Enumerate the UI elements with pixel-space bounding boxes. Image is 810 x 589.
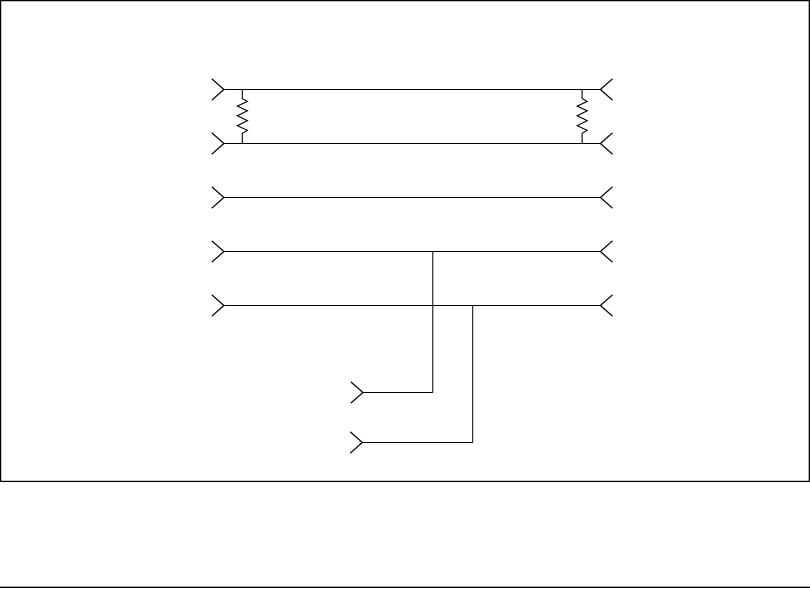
- resistor R1 (left termination, between wire 1 and wire 2): [237, 90, 247, 144]
- connector pin P1 (left, wire 1): [212, 79, 224, 100]
- wire (vertical tap from wire 5 down to wire 7): [472, 306, 474, 443]
- wire 7 (stub to vertical tap): [362, 442, 472, 444]
- wire 3: [224, 197, 601, 199]
- wire (vertical tap from wire 4 down to wire 6): [432, 252, 434, 393]
- wire 5: [224, 305, 601, 307]
- connector pin P4 (left, wire 4): [212, 241, 224, 262]
- wire 1: [224, 89, 601, 91]
- connector pin P3 (left, wire 3): [212, 187, 224, 208]
- wire 6 (stub to vertical tap): [363, 392, 433, 394]
- connector pin P5 (left, wire 5): [212, 295, 224, 316]
- connector pin P10 (right, wire 5): [600, 295, 612, 316]
- wire 2: [224, 143, 601, 145]
- wire 4: [224, 251, 601, 253]
- connector pin P6 (right, wire 1): [600, 79, 612, 100]
- connector pin P9 (right, wire 4): [600, 241, 612, 262]
- resistor R2 (right termination, between wire 1 and wire 2): [577, 90, 587, 144]
- connector pin P7 (right, wire 2): [600, 133, 612, 154]
- connector pin P8 (right, wire 3): [600, 187, 612, 208]
- connector pin P12 (left, wire 7): [350, 432, 362, 453]
- connector pin P2 (left, wire 2): [212, 133, 224, 154]
- connector pin P11 (left, wire 6): [351, 382, 363, 403]
- bottom separator line (decorative): [0, 586, 810, 588]
